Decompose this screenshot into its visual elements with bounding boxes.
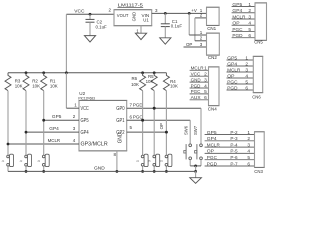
svg-text:CN2: CN2: [208, 55, 217, 60]
svg-text:PGC: PGC: [232, 27, 243, 33]
svg-text:10K: 10K: [170, 84, 178, 89]
svg-text:MCLR: MCLR: [232, 14, 246, 20]
svg-text:2: 2: [247, 136, 250, 142]
svg-text:8: 8: [113, 152, 116, 157]
svg-text:3: 3: [200, 42, 203, 47]
svg-text:4: 4: [204, 83, 207, 89]
svg-text:5: 5: [248, 27, 251, 33]
svg-text:3: 3: [155, 8, 158, 13]
svg-text:MCLR: MCLR: [191, 66, 205, 72]
svg-text:GP4: GP4: [207, 136, 217, 142]
svg-text:GP5: GP5: [232, 2, 242, 8]
svg-text:MCLR: MCLR: [48, 138, 61, 143]
svg-text:10K: 10K: [32, 84, 40, 89]
svg-text:10K: 10K: [146, 79, 154, 84]
svg-text:0.1uF: 0.1uF: [171, 24, 183, 29]
svg-text:2: 2: [109, 8, 112, 13]
svg-text:SW7: SW7: [193, 125, 198, 135]
svg-text:3: 3: [248, 14, 251, 20]
svg-text:U1: U1: [143, 17, 149, 22]
svg-text:PGC: PGC: [227, 79, 238, 85]
svg-text:J5: J5: [148, 159, 151, 163]
svg-text:5: 5: [130, 125, 133, 130]
svg-text:PGD: PGD: [232, 33, 243, 39]
svg-text:MCLR: MCLR: [207, 142, 221, 148]
svg-text:4: 4: [73, 138, 76, 143]
svg-text:PGD: PGD: [133, 102, 143, 107]
svg-text:1: 1: [247, 130, 250, 136]
svg-text:GP3/MCLR: GP3/MCLR: [81, 142, 109, 148]
svg-text:4: 4: [247, 149, 250, 155]
svg-text:CN4: CN4: [208, 107, 217, 112]
svg-text:1: 1: [136, 28, 139, 33]
svg-text:PGD: PGD: [207, 161, 218, 167]
svg-text:PGC: PGC: [191, 89, 201, 95]
svg-text:CN3: CN3: [254, 169, 263, 174]
svg-text:6: 6: [204, 95, 207, 101]
svg-text:6: 6: [248, 33, 251, 39]
svg-text:GND: GND: [191, 77, 201, 83]
svg-text:5: 5: [204, 89, 207, 95]
svg-text:OP: OP: [232, 21, 239, 27]
svg-text:5: 5: [245, 79, 248, 85]
svg-text:GP1: GP1: [116, 118, 124, 124]
svg-text:OP: OP: [227, 73, 234, 79]
svg-text:6: 6: [245, 85, 248, 91]
svg-text:P-6: P-6: [230, 155, 238, 161]
svg-text:10K: 10K: [50, 84, 58, 89]
svg-text:GP0: GP0: [116, 106, 124, 112]
svg-text:J4: J4: [136, 159, 139, 163]
svg-text:OP: OP: [159, 123, 164, 129]
svg-text:P-7: P-7: [230, 161, 238, 167]
svg-text:3: 3: [73, 126, 76, 131]
svg-text:1: 1: [200, 30, 203, 35]
svg-text:PGD: PGD: [191, 83, 201, 89]
svg-text:PGC: PGC: [207, 155, 218, 161]
svg-text:2: 2: [73, 114, 76, 119]
svg-text:PIC12F683: PIC12F683: [78, 96, 95, 101]
svg-text:P-5: P-5: [230, 149, 238, 155]
svg-text:2: 2: [200, 36, 203, 41]
svg-text:5: 5: [247, 155, 250, 161]
svg-text:GND: GND: [118, 132, 124, 143]
svg-text:3: 3: [204, 77, 207, 83]
svg-text:VCC: VCC: [191, 72, 201, 78]
svg-text:2: 2: [248, 8, 251, 14]
svg-text:1: 1: [74, 102, 77, 107]
svg-text:P-4: P-4: [230, 142, 238, 148]
svg-text:1: 1: [248, 2, 251, 8]
svg-text:J1: J1: [1, 159, 4, 163]
svg-text:1: 1: [204, 66, 207, 72]
svg-text:J3: J3: [37, 159, 40, 163]
svg-text:SW6: SW6: [183, 125, 188, 135]
svg-text:OP: OP: [186, 42, 192, 47]
svg-text:PGD: PGD: [227, 85, 238, 91]
svg-text:CN1: CN1: [207, 26, 216, 31]
svg-text:GP5: GP5: [81, 118, 89, 124]
svg-text:+V: +V: [191, 8, 197, 13]
svg-text:AUX: AUX: [191, 95, 202, 101]
svg-text:GP5: GP5: [207, 130, 217, 136]
svg-text:GP4: GP4: [232, 8, 242, 14]
svg-text:GND: GND: [132, 12, 137, 22]
svg-text:VCC: VCC: [81, 106, 89, 112]
svg-text:GP5: GP5: [227, 55, 237, 61]
svg-text:P-3: P-3: [230, 136, 238, 142]
svg-text:GND: GND: [94, 166, 105, 172]
svg-text:GP4: GP4: [227, 61, 237, 67]
svg-text:CN6: CN6: [252, 95, 261, 100]
svg-text:MCLR: MCLR: [227, 67, 241, 73]
svg-text:2: 2: [204, 72, 207, 78]
svg-text:P-2: P-2: [230, 130, 238, 136]
svg-text:PGC: PGC: [133, 114, 143, 119]
svg-text:2: 2: [245, 61, 248, 67]
svg-text:4: 4: [245, 73, 248, 79]
svg-text:GP4: GP4: [81, 130, 89, 136]
svg-text:J2: J2: [19, 159, 22, 163]
svg-text:OP: OP: [207, 149, 214, 155]
svg-text:VCC: VCC: [74, 9, 85, 15]
svg-text:GP4: GP4: [49, 126, 59, 131]
svg-text:3: 3: [245, 67, 248, 73]
svg-text:CN5: CN5: [254, 39, 263, 44]
svg-text:4: 4: [248, 21, 251, 27]
svg-text:1: 1: [245, 55, 248, 61]
svg-text:J6: J6: [160, 159, 163, 163]
svg-text:R6: R6: [132, 76, 138, 81]
svg-text:0.1uF: 0.1uF: [96, 24, 108, 29]
svg-text:GP5: GP5: [52, 114, 62, 119]
svg-text:6: 6: [247, 161, 250, 167]
svg-text:10K: 10K: [131, 82, 139, 87]
svg-text:3: 3: [247, 142, 250, 148]
svg-text:10K: 10K: [15, 84, 23, 89]
svg-text:VOUT: VOUT: [117, 13, 129, 19]
